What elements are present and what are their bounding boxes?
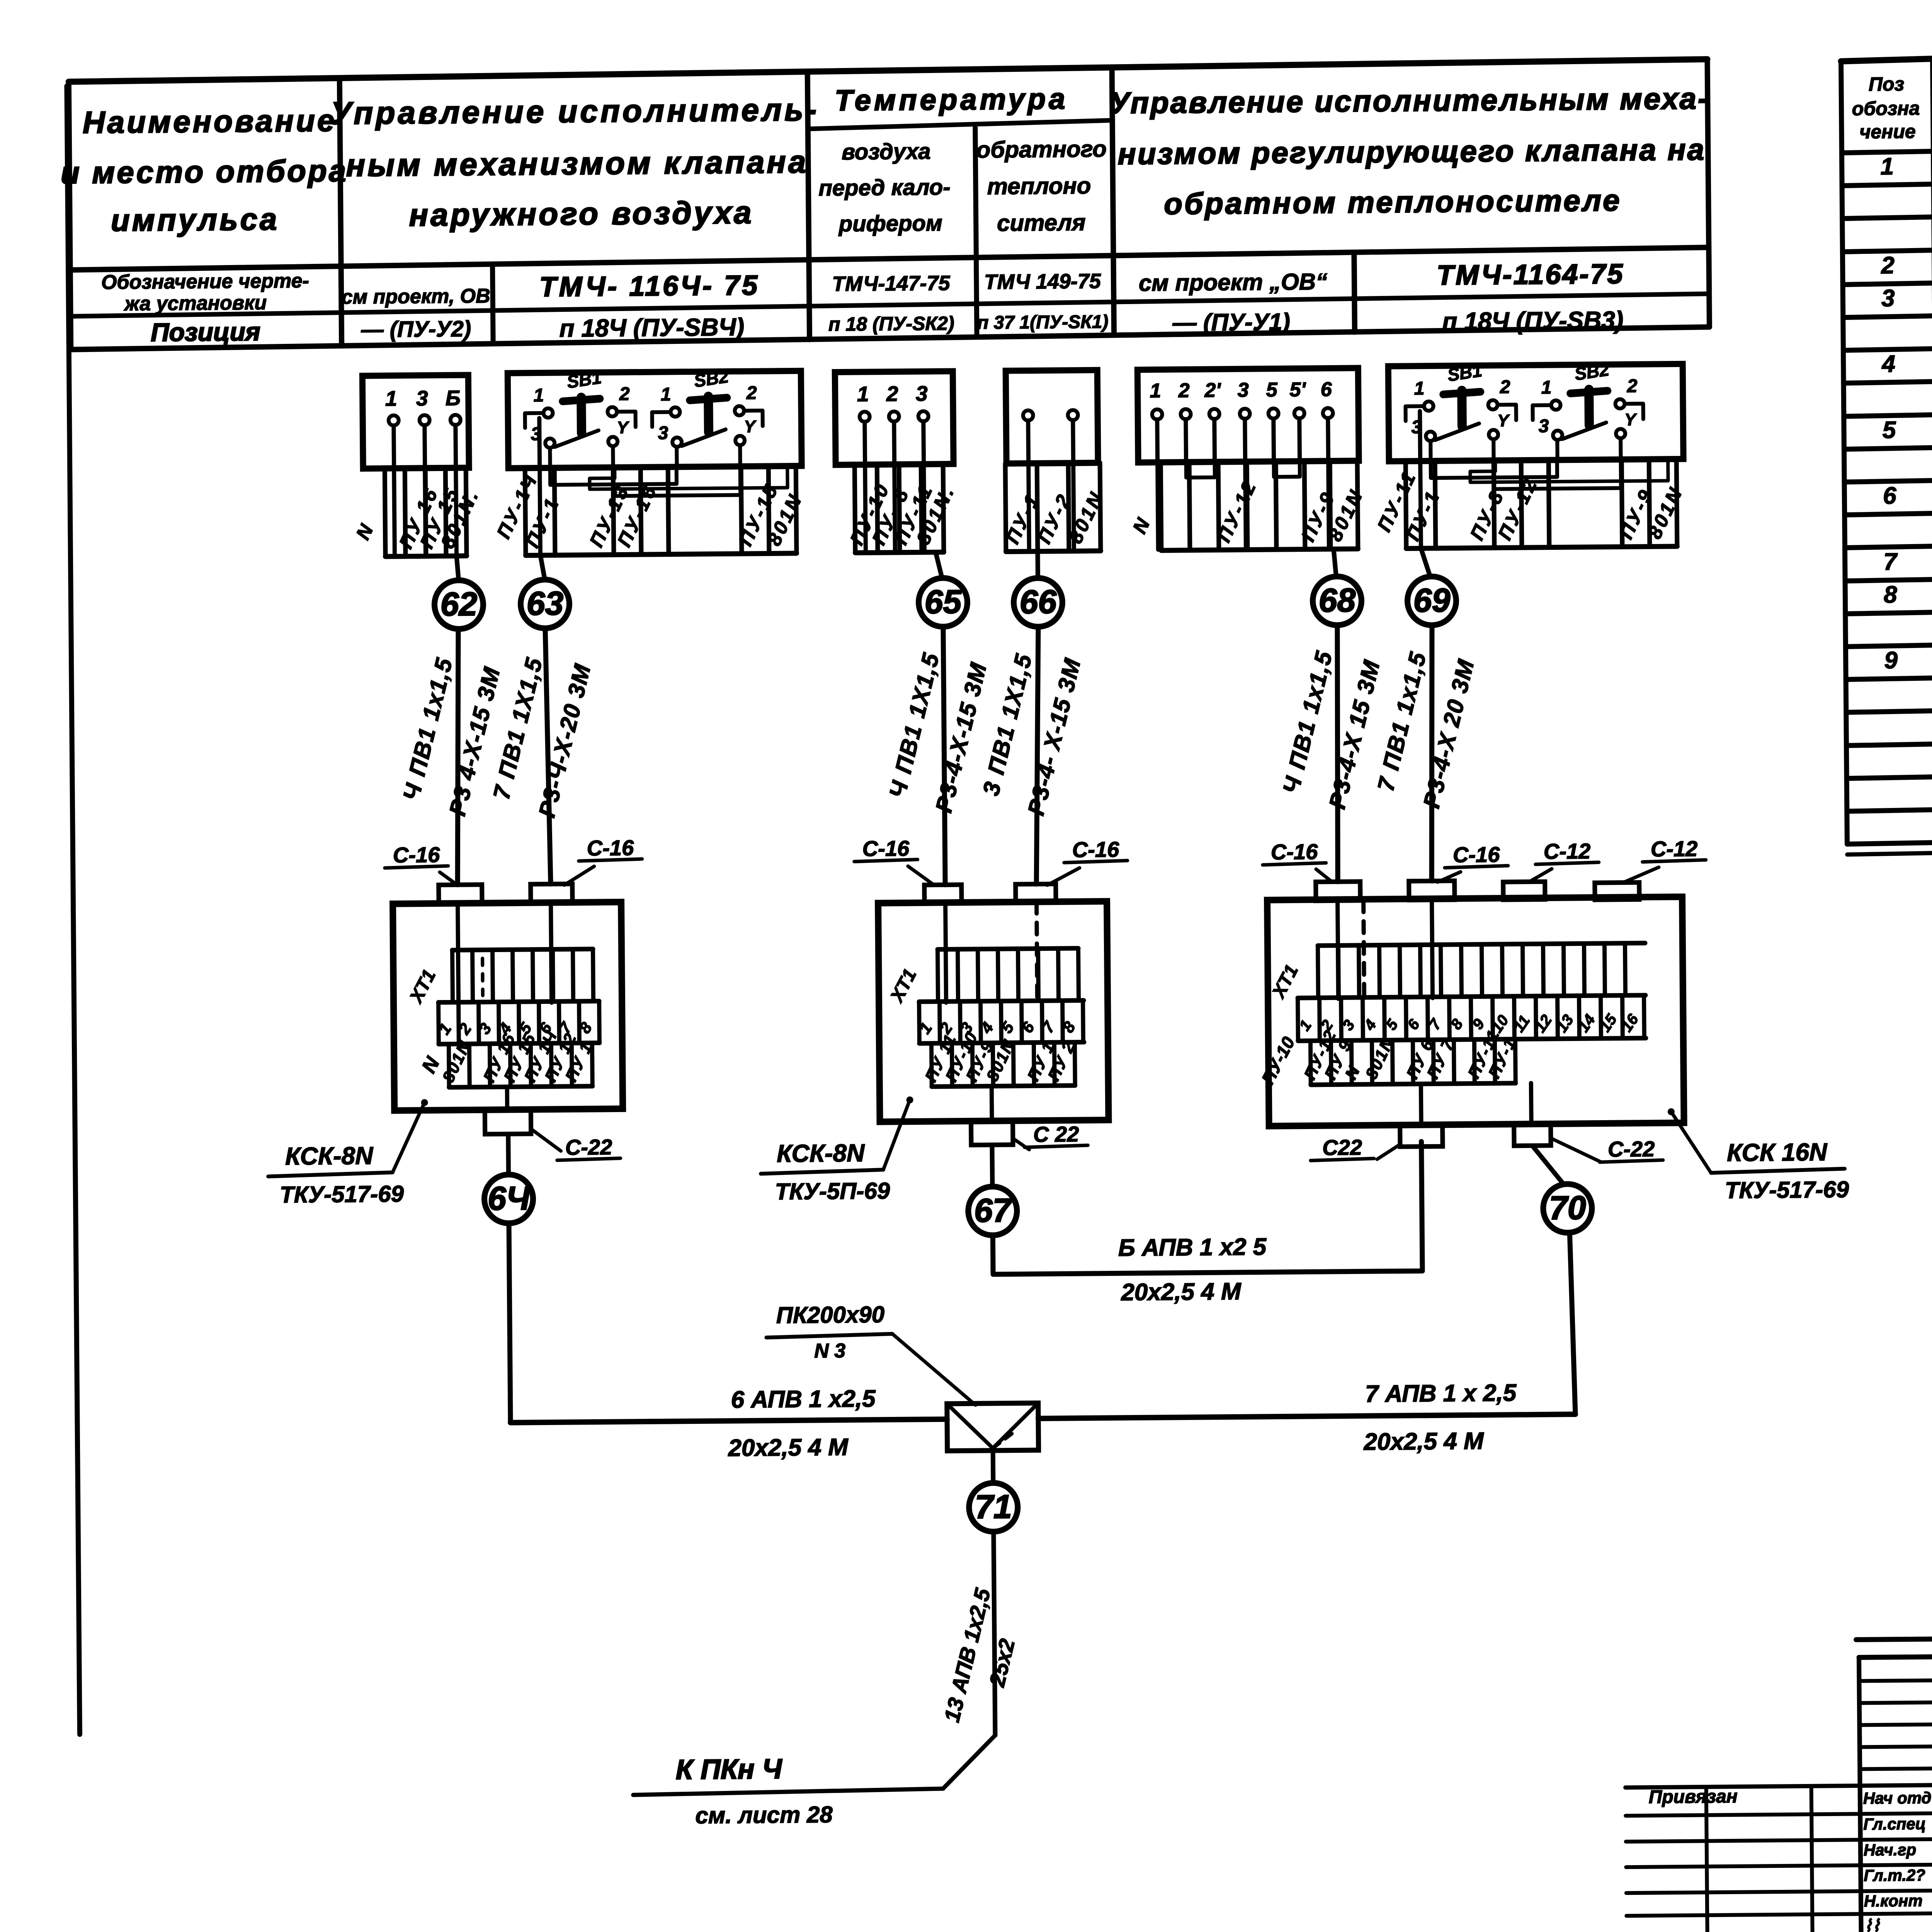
pull box PK200x90 bbox=[947, 1403, 1039, 1451]
svg-text:ТКУ-5П-69: ТКУ-5П-69 bbox=[775, 1178, 890, 1204]
wire C22B to node 67 bbox=[990, 1145, 995, 1187]
terminal box 1 bbox=[362, 375, 469, 469]
terminal box 4 bbox=[1006, 370, 1098, 464]
svg-text:4: 4 bbox=[1881, 351, 1895, 378]
node 67 bbox=[968, 1186, 1017, 1235]
wire bbox=[1034, 627, 1040, 884]
wire bbox=[456, 629, 460, 885]
cable label bbox=[977, 650, 1087, 818]
wire to node 69 bbox=[1421, 548, 1430, 575]
wire node 70 to bus bbox=[1570, 1233, 1575, 1414]
svg-text:Гл.спец: Гл.спец bbox=[1863, 1815, 1926, 1833]
svg-text:⌇⌇: ⌇⌇ bbox=[1864, 1917, 1880, 1932]
C-16 connector A1 bbox=[439, 884, 482, 903]
title block bbox=[1624, 1633, 1932, 1932]
label KCK 16N bbox=[1668, 1107, 1849, 1204]
svg-text:С 22: С 22 bbox=[1033, 1122, 1079, 1146]
svg-text:Привязан: Привязан bbox=[1649, 1786, 1738, 1808]
internal wires box6 bbox=[1420, 409, 1669, 548]
terminal box 2 bbox=[508, 371, 802, 468]
C-22 connector C left bbox=[1400, 1125, 1442, 1147]
svg-text:2: 2 bbox=[886, 382, 898, 406]
stamp table texts bbox=[1649, 1783, 1932, 1932]
svg-text:Гл.т.2?: Гл.т.2? bbox=[1864, 1866, 1925, 1884]
svg-text:Б: Б bbox=[446, 386, 461, 410]
parts row 11 bbox=[1883, 479, 1932, 511]
connector label С22 bbox=[1310, 1135, 1400, 1161]
C-16 connector B2 bbox=[1015, 884, 1056, 902]
svg-text:и место отбора: и место отбора bbox=[61, 153, 348, 190]
KCK A interior terminal assembly bbox=[405, 902, 600, 1088]
node 62 bbox=[434, 580, 483, 629]
svg-text:К ПКн Ч: К ПКн Ч bbox=[675, 1753, 782, 1785]
svg-text:С-12: С-12 bbox=[1544, 839, 1591, 864]
wire bbox=[943, 627, 945, 885]
wire node64 to bus bbox=[509, 1223, 510, 1423]
switch SВ1 bbox=[1405, 360, 1517, 441]
svg-text:ным механизмом клапана: ным механизмом клапана bbox=[346, 145, 808, 183]
bus left cable label bbox=[727, 1385, 876, 1461]
switch SВ2 bbox=[652, 366, 763, 447]
svg-text:рифером: рифером bbox=[838, 211, 942, 236]
svg-text:1: 1 bbox=[1414, 378, 1425, 399]
svg-text:С-16: С-16 bbox=[1072, 837, 1120, 862]
svg-text:п 37 1(ПУ-SК1): п 37 1(ПУ-SК1) bbox=[977, 311, 1109, 333]
pull box PK200x90 label bbox=[766, 1301, 976, 1406]
terminal box 6 bbox=[1388, 364, 1684, 461]
svg-text:С-22: С-22 bbox=[565, 1135, 612, 1160]
svg-text:С22: С22 bbox=[1322, 1135, 1362, 1160]
svg-text:65: 65 bbox=[924, 583, 962, 621]
svg-text:С-12: С-12 bbox=[1651, 837, 1698, 861]
svg-text:3: 3 bbox=[916, 381, 928, 405]
svg-text:2: 2 bbox=[1881, 252, 1895, 279]
svg-text:см проект, ОВ: см проект, ОВ bbox=[342, 285, 490, 308]
svg-text:1: 1 bbox=[385, 386, 397, 410]
connector label С-12 bbox=[1622, 836, 1706, 883]
svg-text:20х2,5 4 М: 20х2,5 4 М bbox=[1121, 1278, 1242, 1306]
bus left segment bbox=[510, 1419, 947, 1423]
svg-text:67: 67 bbox=[974, 1192, 1013, 1230]
connector label С-22 bbox=[1551, 1136, 1663, 1162]
wire to node 66 bbox=[1035, 551, 1040, 578]
node 63 bbox=[520, 579, 570, 628]
terminals box5 bbox=[1150, 378, 1333, 420]
cable label bbox=[883, 649, 993, 816]
terminal strip box2 bbox=[492, 466, 807, 556]
svg-text:Наименование: Наименование bbox=[83, 103, 337, 139]
connector label С-16 bbox=[1047, 837, 1128, 885]
svg-text:3: 3 bbox=[1881, 285, 1895, 312]
svg-text:см проект „ОВ“: см проект „ОВ“ bbox=[1139, 269, 1328, 296]
wire bbox=[1336, 625, 1339, 882]
svg-text:С-16: С-16 bbox=[862, 836, 910, 861]
node 66 bbox=[1014, 578, 1063, 627]
wire to node 62 bbox=[456, 556, 458, 580]
svg-text:— (ПУ-У2): — (ПУ-У2) bbox=[361, 316, 471, 342]
svg-text:ТМЧ-1164-75: ТМЧ-1164-75 bbox=[1437, 259, 1624, 291]
terminal strip box6 bbox=[1372, 459, 1687, 549]
svg-text:Y: Y bbox=[617, 418, 629, 437]
wires box1 to strip bbox=[394, 425, 457, 556]
wire bbox=[1430, 625, 1434, 881]
svg-text:Y: Y bbox=[1497, 411, 1510, 430]
terminal box 3 bbox=[835, 371, 954, 465]
svg-text:1: 1 bbox=[534, 385, 544, 406]
svg-text:Н.конт: Н.конт bbox=[1864, 1891, 1923, 1910]
node 71 bbox=[969, 1483, 1018, 1532]
svg-text:наружного воздуха: наружного воздуха bbox=[409, 195, 754, 233]
parts row 16 bbox=[1884, 642, 1932, 676]
cable label bbox=[1277, 647, 1386, 812]
svg-text:3: 3 bbox=[1538, 416, 1549, 437]
label KCK-8N no2 bbox=[760, 1097, 914, 1205]
parts row 1 bbox=[1880, 150, 1932, 182]
svg-text:обозна: обозна bbox=[1852, 97, 1920, 119]
svg-text:6: 6 bbox=[1320, 378, 1332, 401]
cable label 13 APV bbox=[938, 1585, 1020, 1725]
node 68 bbox=[1313, 576, 1362, 625]
C-22 connector B bbox=[971, 1121, 1013, 1145]
svg-text:КСК 16N: КСК 16N bbox=[1727, 1138, 1828, 1167]
C-16 connector B1 bbox=[924, 885, 961, 903]
wires box5 bbox=[1157, 418, 1329, 549]
KCK B interior terminal assembly bbox=[885, 901, 1084, 1087]
svg-text:— (ПУ-У1): — (ПУ-У1) bbox=[1172, 309, 1290, 336]
svg-text:6Ч: 6Ч bbox=[488, 1180, 531, 1217]
svg-text:ТМЧ 149-75: ТМЧ 149-75 bbox=[984, 270, 1101, 294]
svg-text:2: 2 bbox=[1500, 377, 1510, 397]
svg-text:69: 69 bbox=[1413, 582, 1451, 619]
svg-text:70: 70 bbox=[1549, 1189, 1586, 1227]
svg-text:1: 1 bbox=[857, 382, 869, 406]
svg-text:п 18Ч (ПУ-SВЧ): п 18Ч (ПУ-SВЧ) bbox=[559, 313, 744, 342]
svg-text:3: 3 bbox=[416, 386, 428, 410]
node 65 bbox=[918, 578, 968, 627]
terminals box4 bbox=[1023, 410, 1078, 420]
C-16 connector C2 bbox=[1409, 881, 1454, 900]
svg-text:Нач отд: Нач отд bbox=[1863, 1789, 1932, 1807]
terminal box 5 bbox=[1138, 368, 1359, 462]
svg-text:обратного: обратного bbox=[976, 136, 1107, 163]
wire to node 65 bbox=[935, 552, 942, 578]
KCK C interior terminal assembly bbox=[1256, 898, 1646, 1088]
header table bbox=[69, 59, 1710, 349]
node 69 bbox=[1407, 576, 1456, 625]
bus right cable label bbox=[1363, 1379, 1517, 1455]
svg-text:низмом регулирующего клапана: низмом регулирующего клапана на bbox=[1117, 132, 1706, 171]
svg-text:ТКУ-517-69: ТКУ-517-69 bbox=[1725, 1177, 1849, 1204]
svg-text:62: 62 bbox=[440, 585, 477, 623]
svg-text:ТМЧ-147-75: ТМЧ-147-75 bbox=[832, 272, 950, 296]
svg-text:сителя: сителя bbox=[997, 209, 1086, 236]
svg-text:п 18Ч (ПУ-SВ3): п 18Ч (ПУ-SВ3) bbox=[1442, 306, 1624, 335]
svg-text:С-16: С-16 bbox=[393, 842, 440, 867]
connector label С-22 bbox=[531, 1128, 621, 1160]
parts row 9 bbox=[1883, 412, 1932, 446]
junction box KCK-8N no.1 bbox=[393, 902, 623, 1111]
terminal strip box4 bbox=[1001, 463, 1108, 552]
svg-text:Обозначение черте-: Обозначение черте- bbox=[101, 270, 309, 294]
svg-text:обратном теплоносителе: обратном теплоносителе bbox=[1164, 183, 1622, 221]
wire to PKn4 bbox=[633, 1735, 996, 1795]
svg-text:С-16: С-16 bbox=[587, 835, 634, 860]
svg-text:6: 6 bbox=[1883, 482, 1897, 509]
svg-text:66: 66 bbox=[1019, 583, 1057, 621]
svg-text:Позиция: Позиция bbox=[151, 317, 260, 347]
svg-text:Б АПВ 1 х2 5: Б АПВ 1 х2 5 bbox=[1118, 1233, 1267, 1261]
wires box4 to strip bbox=[1028, 420, 1074, 551]
svg-text:5: 5 bbox=[1266, 379, 1277, 401]
svg-text:3: 3 bbox=[1237, 379, 1248, 401]
stub wires KCK C bbox=[1419, 1084, 1423, 1125]
cable label bbox=[1371, 648, 1480, 811]
connector label С-12 bbox=[1528, 839, 1599, 882]
svg-text:перед кало-: перед кало- bbox=[818, 175, 951, 201]
svg-text:ПК200х90: ПК200х90 bbox=[776, 1301, 885, 1328]
svg-text:2': 2' bbox=[1204, 379, 1221, 401]
svg-text:см. лист 28: см. лист 28 bbox=[695, 1801, 833, 1828]
svg-text:1: 1 bbox=[1880, 153, 1894, 180]
parts list table bbox=[1841, 44, 1932, 854]
svg-text:КСК-8N: КСК-8N bbox=[777, 1139, 866, 1168]
connector label С-16 bbox=[1437, 842, 1508, 882]
svg-text:теплоно: теплоно bbox=[987, 173, 1091, 199]
terminals box1 bbox=[385, 386, 461, 426]
connector label С-16 bbox=[854, 836, 934, 886]
label K PKn4 bbox=[675, 1753, 833, 1828]
wires box3 to strip bbox=[865, 421, 925, 552]
svg-text:2: 2 bbox=[1627, 376, 1638, 396]
svg-text:чение: чение bbox=[1859, 121, 1916, 143]
node 70 bbox=[1543, 1184, 1592, 1233]
svg-text:2: 2 bbox=[619, 384, 630, 404]
svg-text:жа установки: жа установки bbox=[123, 292, 267, 315]
svg-text:N 3: N 3 bbox=[814, 1340, 845, 1362]
switch SВ2 bbox=[1532, 359, 1644, 440]
cable label bbox=[397, 654, 506, 819]
connector label С 22 bbox=[1014, 1122, 1088, 1150]
svg-text:63: 63 bbox=[526, 585, 563, 622]
wire node 71 down bbox=[993, 1532, 995, 1735]
svg-text:Управление исполнительным ме: Управление исполнительным меха- bbox=[1109, 81, 1709, 120]
svg-text:5': 5' bbox=[1289, 378, 1306, 401]
bus B cable label bbox=[1118, 1233, 1267, 1306]
svg-text:Управление исполнитель-: Управление исполнитель- bbox=[330, 92, 819, 131]
svg-text:3: 3 bbox=[658, 423, 668, 443]
svg-text:импульса: импульса bbox=[111, 202, 279, 237]
cable label bbox=[487, 654, 597, 820]
svg-text:Нач.гр: Нач.гр bbox=[1864, 1840, 1917, 1859]
svg-text:КСК-8N: КСК-8N bbox=[285, 1141, 374, 1170]
svg-text:1: 1 bbox=[1541, 377, 1552, 398]
parts row 14 bbox=[1884, 577, 1932, 611]
wire C22 to node 64 bbox=[506, 1134, 511, 1175]
wire node 67 to bus B bbox=[992, 1141, 1423, 1274]
svg-text:Поз: Поз bbox=[1869, 73, 1904, 95]
svg-text:68: 68 bbox=[1318, 582, 1356, 619]
wire C22C to node 70 bbox=[1532, 1145, 1564, 1184]
wire bbox=[545, 628, 551, 884]
svg-text:п 18 (ПУ-SК2): п 18 (ПУ-SК2) bbox=[828, 313, 954, 335]
node 6Ч bbox=[484, 1174, 533, 1223]
C-22 connector C right bbox=[1514, 1124, 1551, 1146]
svg-text:1: 1 bbox=[1150, 379, 1161, 402]
label KCK-8N bbox=[268, 1099, 429, 1207]
switch SВ1 bbox=[525, 367, 636, 448]
connector label С-16 bbox=[564, 835, 642, 885]
stub wire to C-22 bbox=[505, 1087, 509, 1110]
svg-text:1: 1 bbox=[661, 384, 671, 405]
svg-text:ТКУ-517-69: ТКУ-517-69 bbox=[280, 1181, 404, 1208]
svg-text:Температура: Температура bbox=[835, 82, 1068, 117]
wire junction to node 71 bbox=[991, 1451, 996, 1483]
C-16 connector A2 bbox=[531, 884, 572, 903]
C-22 connector A bbox=[485, 1109, 531, 1134]
terminals box3 bbox=[857, 381, 929, 422]
svg-text:20х2,5 4 М: 20х2,5 4 М bbox=[1363, 1428, 1484, 1455]
svg-text:Y: Y bbox=[1624, 410, 1637, 429]
svg-text:С-16: С-16 bbox=[1453, 842, 1500, 867]
wire to node 63 bbox=[540, 555, 544, 580]
svg-text:5: 5 bbox=[1883, 417, 1897, 443]
frame left border bbox=[67, 86, 80, 1735]
internal wires box2 bbox=[539, 416, 788, 555]
svg-text:7: 7 bbox=[1883, 548, 1898, 575]
terminal strip box5 bbox=[1128, 461, 1368, 551]
svg-text:2: 2 bbox=[746, 383, 757, 403]
svg-text:9: 9 bbox=[1884, 647, 1898, 673]
junction box KCK-16N bbox=[1267, 897, 1684, 1126]
svg-text:8: 8 bbox=[1884, 581, 1898, 608]
junction box KCK-8N no.2 bbox=[878, 901, 1109, 1122]
terminal strip box1 bbox=[351, 468, 484, 557]
svg-text:воздуха: воздуха bbox=[842, 139, 931, 165]
svg-text:ТМЧ- 116Ч- 75: ТМЧ- 116Ч- 75 bbox=[539, 270, 760, 303]
bus right segment bbox=[1038, 1414, 1575, 1418]
svg-text:С-16: С-16 bbox=[1271, 839, 1318, 864]
parts row 7 bbox=[1881, 347, 1932, 380]
parts row 13 bbox=[1883, 544, 1932, 578]
connector label С-16 bbox=[1262, 839, 1332, 883]
connector label С-16 bbox=[384, 842, 457, 886]
C-16 connector C1 bbox=[1316, 881, 1360, 901]
svg-text:Y: Y bbox=[744, 417, 757, 436]
C-12 connector C3 bbox=[1503, 882, 1545, 900]
svg-text:С-22: С-22 bbox=[1608, 1136, 1655, 1161]
svg-text:2: 2 bbox=[1178, 379, 1189, 402]
stub wire to C-22 B bbox=[990, 1086, 994, 1121]
terminal strip box3 bbox=[845, 464, 959, 553]
svg-text:6 АПВ 1 х2,5: 6 АПВ 1 х2,5 bbox=[731, 1385, 876, 1413]
wire to node 68 bbox=[1333, 549, 1336, 577]
svg-text:20х2,5 4 М: 20х2,5 4 М bbox=[728, 1434, 849, 1461]
parts row 4 bbox=[1881, 248, 1932, 281]
svg-text:7 АПВ 1 х 2,5: 7 АПВ 1 х 2,5 bbox=[1365, 1379, 1517, 1407]
parts row 5 bbox=[1881, 281, 1932, 314]
svg-text:71: 71 bbox=[975, 1488, 1012, 1526]
C-12 connector C4 bbox=[1595, 883, 1639, 900]
